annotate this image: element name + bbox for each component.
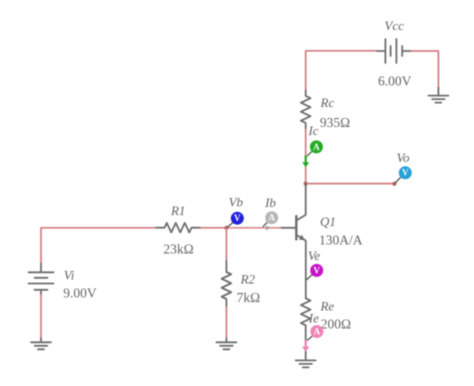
- node base junction: [224, 226, 228, 230]
- wire R2 bottom to ground: [225, 307, 227, 339]
- svg-text:Vi: Vi: [64, 267, 75, 282]
- svg-text:Rc: Rc: [320, 95, 335, 110]
- svg-text:Vcc: Vcc: [384, 18, 404, 33]
- svg-text:V: V: [313, 265, 320, 275]
- probe Vo: [399, 166, 412, 179]
- svg-text:A: A: [313, 142, 320, 152]
- probe Ib: [265, 211, 278, 224]
- svg-text:R1: R1: [170, 203, 185, 218]
- probe Ic: [310, 140, 323, 153]
- wire top from Rc corner to Vcc left terminal: [306, 51, 378, 91]
- current arrow Ie: [305, 341, 307, 347]
- current arrow Ib: [266, 225, 270, 230]
- ground (R2): [216, 338, 236, 349]
- resistor Re: [301, 298, 311, 330]
- svg-text:R2: R2: [240, 271, 256, 286]
- svg-text:Ve: Ve: [308, 248, 321, 263]
- transistor Q1 collector lead: [297, 184, 306, 221]
- transistor Q1 base bar: [295, 216, 297, 239]
- svg-text:935Ω: 935Ω: [320, 115, 350, 130]
- svg-text:A: A: [314, 326, 321, 336]
- svg-text:6.00V: 6.00V: [378, 74, 412, 89]
- wire base junction to Q1 base: [226, 227, 280, 229]
- probe Vo tail: [396, 177, 401, 182]
- svg-text:A: A: [268, 213, 275, 223]
- svg-text:Vo: Vo: [397, 150, 411, 165]
- svg-text:7kΩ: 7kΩ: [237, 290, 261, 305]
- svg-text:Ie: Ie: [308, 311, 319, 326]
- svg-text:130A/A: 130A/A: [319, 233, 363, 248]
- node Vo endpoint: [392, 182, 396, 186]
- wire base junction down to R2: [225, 228, 227, 261]
- transistor Q1 base pin stub: [281, 227, 296, 229]
- probe Ib tail: [263, 222, 267, 226]
- wire collector junction to Vo: [306, 183, 395, 185]
- wire Vi top to R1: [41, 228, 156, 264]
- svg-text:Ic: Ic: [307, 123, 318, 138]
- wire Vi bottom to ground: [40, 295, 42, 338]
- transistor Q1 emitter lead with arrow: [297, 235, 306, 298]
- wire Re bottom to ground: [305, 330, 307, 360]
- probe Vb tail: [228, 223, 233, 228]
- probe Ve tail: [307, 275, 312, 280]
- probe Ie: [310, 325, 323, 338]
- resistor Rc: [301, 90, 311, 129]
- battery Vcc: [377, 39, 410, 63]
- svg-text:200Ω: 200Ω: [321, 316, 351, 331]
- battery Vi: [29, 263, 54, 295]
- svg-text:V: V: [234, 213, 241, 223]
- ground (Re): [296, 360, 316, 367]
- ground (Vi): [31, 338, 51, 349]
- wire Vcc right terminal to ground: [410, 51, 438, 88]
- svg-text:23kΩ: 23kΩ: [163, 242, 193, 257]
- probe Vb: [231, 212, 244, 225]
- probe Ve: [310, 264, 323, 277]
- svg-text:Vb: Vb: [229, 195, 244, 210]
- svg-text:Ib: Ib: [264, 195, 276, 210]
- ground (Vcc): [428, 88, 448, 103]
- node collector junction: [304, 182, 308, 186]
- svg-text:Q1: Q1: [320, 214, 336, 229]
- probe Ic tail: [307, 151, 312, 156]
- svg-text:9.00V: 9.00V: [63, 286, 97, 301]
- current arrow Ic: [305, 156, 307, 162]
- svg-text:V: V: [402, 168, 409, 178]
- probe Ie tail: [308, 336, 313, 340]
- resistor R1: [156, 223, 201, 233]
- resistor R2: [222, 261, 232, 307]
- svg-text:Re: Re: [319, 299, 334, 314]
- wire R1 right to base junction: [201, 227, 227, 229]
- wire Rc bottom to collector junction: [305, 129, 307, 183]
